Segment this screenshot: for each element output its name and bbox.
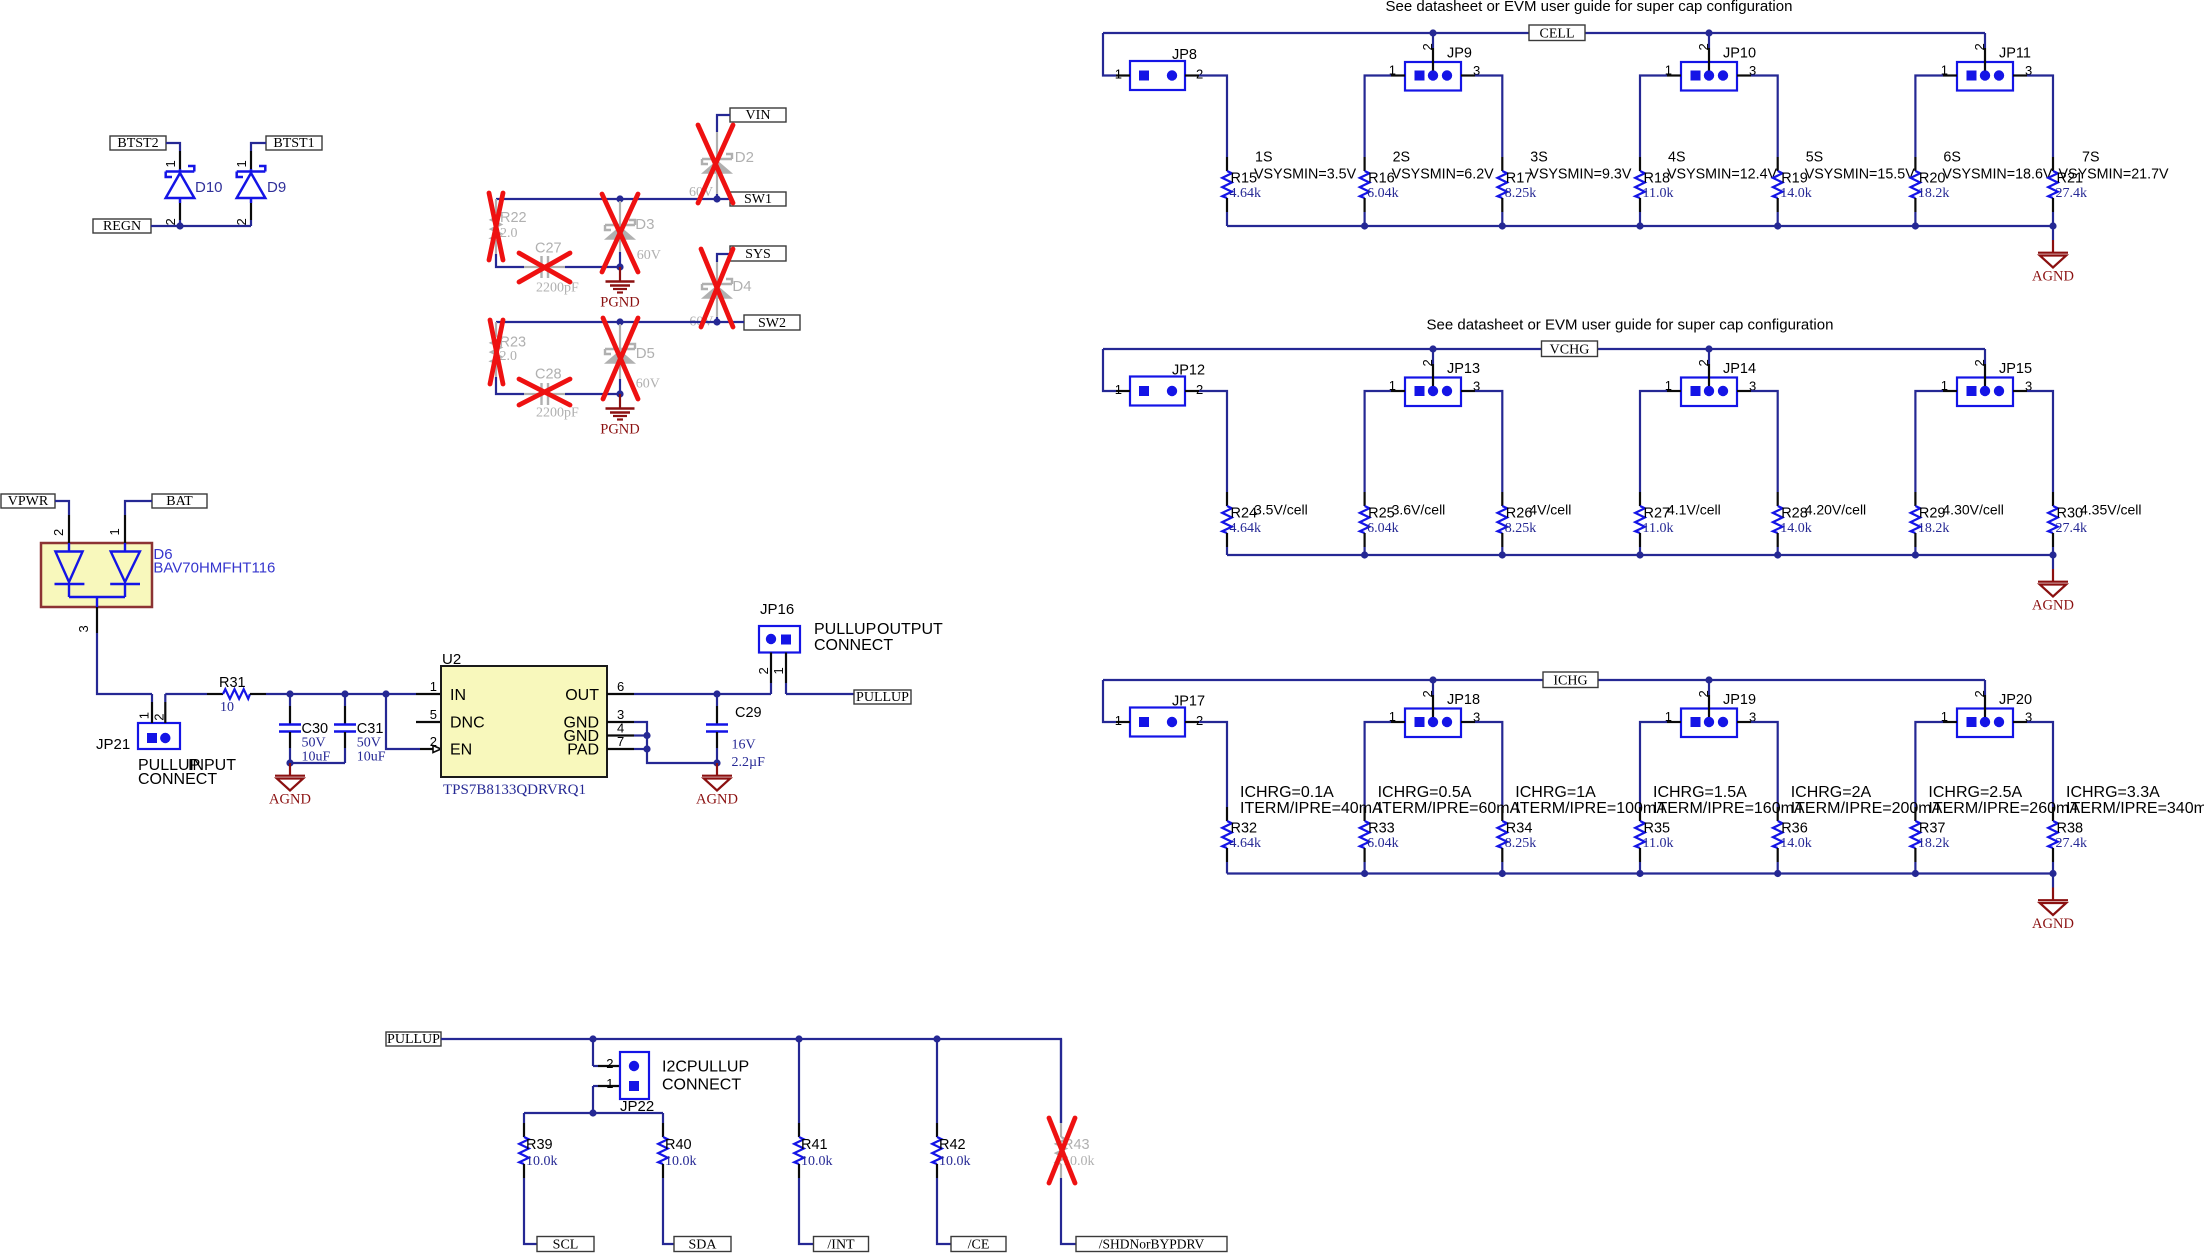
svg-text:1: 1 [137, 712, 152, 719]
svg-text:27.4k: 27.4k [2056, 186, 2088, 201]
svg-text:2: 2 [1196, 713, 1203, 728]
svg-text:PULLUP: PULLUP [387, 1032, 440, 1047]
svg-text:2: 2 [151, 713, 166, 720]
svg-text:CELL: CELL [1540, 26, 1575, 41]
svg-text:VSYSMIN=9.3V: VSYSMIN=9.3V [1529, 167, 1632, 183]
svg-text:R38: R38 [2057, 821, 2084, 837]
svg-text:R32: R32 [1231, 821, 1258, 837]
svg-text:14.0k: 14.0k [1780, 186, 1812, 201]
svg-text:/INT: /INT [827, 1237, 855, 1252]
svg-text:JP13: JP13 [1447, 361, 1480, 377]
svg-text:2: 2 [1972, 43, 1987, 50]
svg-text:BTST1: BTST1 [273, 136, 314, 151]
svg-text:10.0k: 10.0k [526, 1154, 558, 1169]
svg-text:AGND: AGND [2032, 598, 2074, 614]
svg-text:ICHRG=2.5A: ICHRG=2.5A [1928, 784, 2022, 801]
svg-text:27.4k: 27.4k [2056, 836, 2088, 851]
svg-text:1: 1 [771, 667, 786, 674]
svg-text:ICHRG=3.3A: ICHRG=3.3A [2066, 784, 2160, 801]
svg-text:4.30V/cell: 4.30V/cell [1942, 502, 2003, 518]
svg-text:5: 5 [430, 707, 437, 722]
svg-text:R31: R31 [219, 675, 246, 691]
svg-text:11.0k: 11.0k [1643, 521, 1674, 536]
svg-text:SCL: SCL [553, 1237, 579, 1252]
svg-text:D4: D4 [732, 278, 751, 295]
svg-text:ITERM/IPRE=40mA: ITERM/IPRE=40mA [1240, 800, 1383, 817]
svg-text:14.0k: 14.0k [1780, 836, 1812, 851]
svg-text:2: 2 [1696, 43, 1711, 50]
svg-text:2: 2 [1196, 67, 1203, 82]
svg-text:7: 7 [617, 734, 624, 749]
svg-text:R35: R35 [1644, 821, 1671, 837]
svg-text:JP18: JP18 [1447, 692, 1480, 708]
svg-text:6.04k: 6.04k [1367, 186, 1399, 201]
svg-text:ITERM/IPRE=200mA: ITERM/IPRE=200mA [1791, 800, 1943, 817]
svg-text:JP17: JP17 [1172, 694, 1205, 710]
svg-text:2: 2 [1972, 359, 1987, 366]
svg-text:R40: R40 [665, 1137, 692, 1153]
svg-text:DNC: DNC [450, 715, 485, 732]
svg-text:OUT: OUT [565, 687, 599, 704]
svg-text:VSYSMIN=12.4V: VSYSMIN=12.4V [1667, 167, 1778, 183]
svg-text:4.35V/cell: 4.35V/cell [2080, 502, 2141, 518]
svg-text:ITERM/IPRE=340mA: ITERM/IPRE=340mA [2066, 800, 2204, 817]
svg-text:SYS: SYS [745, 247, 771, 262]
svg-text:27.4k: 27.4k [2056, 521, 2088, 536]
svg-text:10.0k: 10.0k [665, 1154, 697, 1169]
svg-text:R39: R39 [526, 1137, 553, 1153]
svg-text:JP20: JP20 [1999, 692, 2032, 708]
svg-text:8.25k: 8.25k [1505, 836, 1537, 851]
svg-text:60V: 60V [636, 377, 660, 392]
svg-text:D3: D3 [635, 216, 654, 233]
svg-text:JP8: JP8 [1172, 47, 1197, 63]
svg-text:7S: 7S [2082, 150, 2100, 166]
svg-text:/CE: /CE [968, 1237, 990, 1252]
svg-text:1: 1 [1115, 67, 1122, 82]
svg-text:R37: R37 [1919, 821, 1946, 837]
svg-text:18.2k: 18.2k [1918, 186, 1950, 201]
svg-text:R42: R42 [939, 1137, 966, 1153]
svg-text:PAD: PAD [567, 742, 599, 759]
svg-text:2: 2 [430, 734, 437, 749]
svg-text:1: 1 [107, 528, 122, 535]
svg-text:2: 2 [1420, 359, 1435, 366]
svg-text:D10: D10 [195, 179, 223, 196]
svg-text:SDA: SDA [688, 1237, 717, 1252]
svg-text:VCHG: VCHG [1550, 342, 1590, 357]
svg-text:ICHRG=0.5A: ICHRG=0.5A [1378, 784, 1472, 801]
svg-text:ITERM/IPRE=100mA: ITERM/IPRE=100mA [1515, 800, 1667, 817]
svg-text:2200pF: 2200pF [536, 406, 579, 421]
svg-text:R33: R33 [1368, 821, 1395, 837]
svg-text:60V: 60V [637, 248, 661, 263]
svg-text:AGND: AGND [696, 792, 738, 808]
svg-text:JP21: JP21 [96, 736, 130, 753]
svg-text:VIN: VIN [746, 108, 771, 123]
svg-text:R22: R22 [500, 210, 527, 226]
svg-text:2.2µF: 2.2µF [732, 755, 766, 770]
svg-text:2.0: 2.0 [500, 226, 518, 241]
svg-text:3: 3 [76, 625, 91, 632]
svg-text:1: 1 [430, 679, 437, 694]
svg-text:SW1: SW1 [744, 192, 772, 207]
svg-text:6S: 6S [1943, 150, 1961, 166]
svg-text:18.2k: 18.2k [1918, 836, 1950, 851]
svg-text:16V: 16V [732, 738, 756, 753]
svg-text:4.20V/cell: 4.20V/cell [1805, 502, 1866, 518]
svg-text:4V/cell: 4V/cell [1529, 502, 1571, 518]
svg-text:See datasheet or EVM user guid: See datasheet or EVM user guide for supe… [1386, 0, 1793, 15]
svg-text:3.5V/cell: 3.5V/cell [1254, 502, 1308, 518]
svg-text:ICHRG=1.5A: ICHRG=1.5A [1653, 784, 1747, 801]
svg-text:10uF: 10uF [357, 750, 386, 765]
svg-text:AGND: AGND [269, 792, 311, 808]
svg-text:U2: U2 [442, 651, 461, 668]
svg-text:1: 1 [163, 160, 178, 167]
svg-text:JP11: JP11 [1999, 46, 2031, 62]
svg-text:JP12: JP12 [1172, 363, 1205, 379]
svg-text:BTST2: BTST2 [117, 136, 158, 151]
svg-text:50V: 50V [302, 736, 326, 751]
svg-text:18.2k: 18.2k [1918, 521, 1950, 536]
svg-text:4.1V/cell: 4.1V/cell [1667, 502, 1721, 518]
svg-text:8.25k: 8.25k [1505, 186, 1537, 201]
svg-text:2: 2 [756, 667, 771, 674]
svg-text:TPS7B8133QDRVRQ1: TPS7B8133QDRVRQ1 [443, 782, 586, 798]
svg-text:2: 2 [163, 218, 178, 225]
svg-text:I2CPULLUP: I2CPULLUP [662, 1059, 749, 1076]
svg-text:4.64k: 4.64k [1230, 836, 1262, 851]
svg-text:C28: C28 [535, 367, 562, 383]
svg-text:BAV70HMFHT116: BAV70HMFHT116 [153, 560, 275, 577]
svg-text:2.0: 2.0 [500, 349, 518, 364]
svg-text:D9: D9 [267, 179, 286, 196]
svg-text:PGND: PGND [600, 295, 639, 311]
svg-text:3.6V/cell: 3.6V/cell [1392, 502, 1446, 518]
svg-text:C27: C27 [535, 241, 562, 257]
svg-text:11.0k: 11.0k [1643, 836, 1674, 851]
svg-text:CONNECT: CONNECT [662, 1077, 741, 1094]
svg-text:ICHRG=0.1A: ICHRG=0.1A [1240, 784, 1334, 801]
svg-text:D2: D2 [735, 149, 754, 166]
svg-text:10.0k: 10.0k [801, 1154, 833, 1169]
svg-text:3S: 3S [1530, 150, 1548, 166]
svg-text:4.64k: 4.64k [1230, 186, 1262, 201]
svg-text:2: 2 [1696, 359, 1711, 366]
svg-text:R41: R41 [801, 1137, 828, 1153]
svg-text:2: 2 [234, 218, 249, 225]
svg-text:EN: EN [450, 742, 472, 759]
svg-text:8.25k: 8.25k [1505, 521, 1537, 536]
svg-text:ICHG: ICHG [1553, 673, 1587, 688]
svg-text:10: 10 [220, 700, 234, 715]
svg-text:2: 2 [1196, 382, 1203, 397]
svg-text:AGND: AGND [2032, 916, 2074, 932]
svg-text:ITERM/IPRE=260mA: ITERM/IPRE=260mA [1928, 800, 2080, 817]
svg-text:JP19: JP19 [1723, 692, 1756, 708]
svg-text:VSYSMIN=3.5V: VSYSMIN=3.5V [1254, 167, 1357, 183]
svg-text:VSYSMIN=18.6V: VSYSMIN=18.6V [1942, 167, 2053, 183]
svg-text:D5: D5 [636, 345, 655, 362]
svg-text:IN: IN [450, 687, 466, 704]
svg-text:ITERM/IPRE=160mA: ITERM/IPRE=160mA [1653, 800, 1805, 817]
svg-text:AGND: AGND [2032, 269, 2074, 285]
svg-text:PGND: PGND [600, 422, 639, 438]
svg-text:VSYSMIN=15.5V: VSYSMIN=15.5V [1805, 167, 1916, 183]
svg-text:2: 2 [51, 529, 66, 536]
svg-text:JP15: JP15 [1999, 361, 2032, 377]
svg-text:6.04k: 6.04k [1367, 836, 1399, 851]
svg-text:2200pF: 2200pF [536, 281, 579, 296]
svg-text:R36: R36 [1781, 821, 1808, 837]
svg-text:JP16: JP16 [760, 601, 794, 618]
svg-text:ICHRG=2A: ICHRG=2A [1791, 784, 1872, 801]
svg-text:C29: C29 [735, 705, 762, 721]
svg-text:2: 2 [1972, 690, 1987, 697]
svg-text:JP10: JP10 [1723, 46, 1756, 62]
svg-text:1: 1 [234, 160, 249, 167]
svg-text:BAT: BAT [166, 494, 193, 509]
svg-text:/SHDNorBYPDRV: /SHDNorBYPDRV [1099, 1236, 1205, 1251]
svg-text:11.0k: 11.0k [1643, 186, 1674, 201]
svg-text:CONNECT: CONNECT [814, 637, 893, 654]
svg-text:JP9: JP9 [1447, 46, 1472, 62]
svg-text:6: 6 [617, 679, 624, 694]
svg-text:VSYSMIN=6.2V: VSYSMIN=6.2V [1392, 167, 1495, 183]
svg-text:6.04k: 6.04k [1367, 521, 1399, 536]
svg-text:1: 1 [1115, 382, 1122, 397]
svg-text:4S: 4S [1668, 150, 1686, 166]
svg-text:14.0k: 14.0k [1780, 521, 1812, 536]
svg-text:VPWR: VPWR [8, 494, 49, 509]
svg-text:OUTPUT: OUTPUT [877, 621, 943, 638]
svg-text:ICHRG=1A: ICHRG=1A [1515, 784, 1596, 801]
svg-text:2S: 2S [1393, 150, 1411, 166]
svg-text:R34: R34 [1506, 821, 1533, 837]
svg-text:PULLUP: PULLUP [814, 621, 876, 638]
svg-text:1S: 1S [1255, 150, 1273, 166]
svg-text:50V: 50V [357, 736, 381, 751]
svg-text:1: 1 [1115, 713, 1122, 728]
svg-text:5S: 5S [1806, 150, 1824, 166]
svg-text:See datasheet or EVM user guid: See datasheet or EVM user guide for supe… [1427, 317, 1834, 334]
svg-text:PULLUP: PULLUP [856, 690, 909, 705]
svg-text:2: 2 [606, 1056, 613, 1071]
svg-text:JP14: JP14 [1723, 361, 1756, 377]
svg-text:REGN: REGN [103, 219, 141, 234]
svg-text:4.64k: 4.64k [1230, 521, 1262, 536]
svg-text:CONNECT: CONNECT [138, 771, 217, 788]
svg-text:10.0k: 10.0k [939, 1154, 971, 1169]
svg-text:2: 2 [1420, 690, 1435, 697]
svg-text:ITERM/IPRE=60mA: ITERM/IPRE=60mA [1378, 800, 1521, 817]
svg-text:1: 1 [606, 1076, 613, 1091]
svg-text:SW2: SW2 [758, 316, 786, 331]
svg-text:2: 2 [1696, 690, 1711, 697]
svg-text:2: 2 [1420, 43, 1435, 50]
svg-text:VSYSMIN=21.7V: VSYSMIN=21.7V [2059, 167, 2170, 183]
